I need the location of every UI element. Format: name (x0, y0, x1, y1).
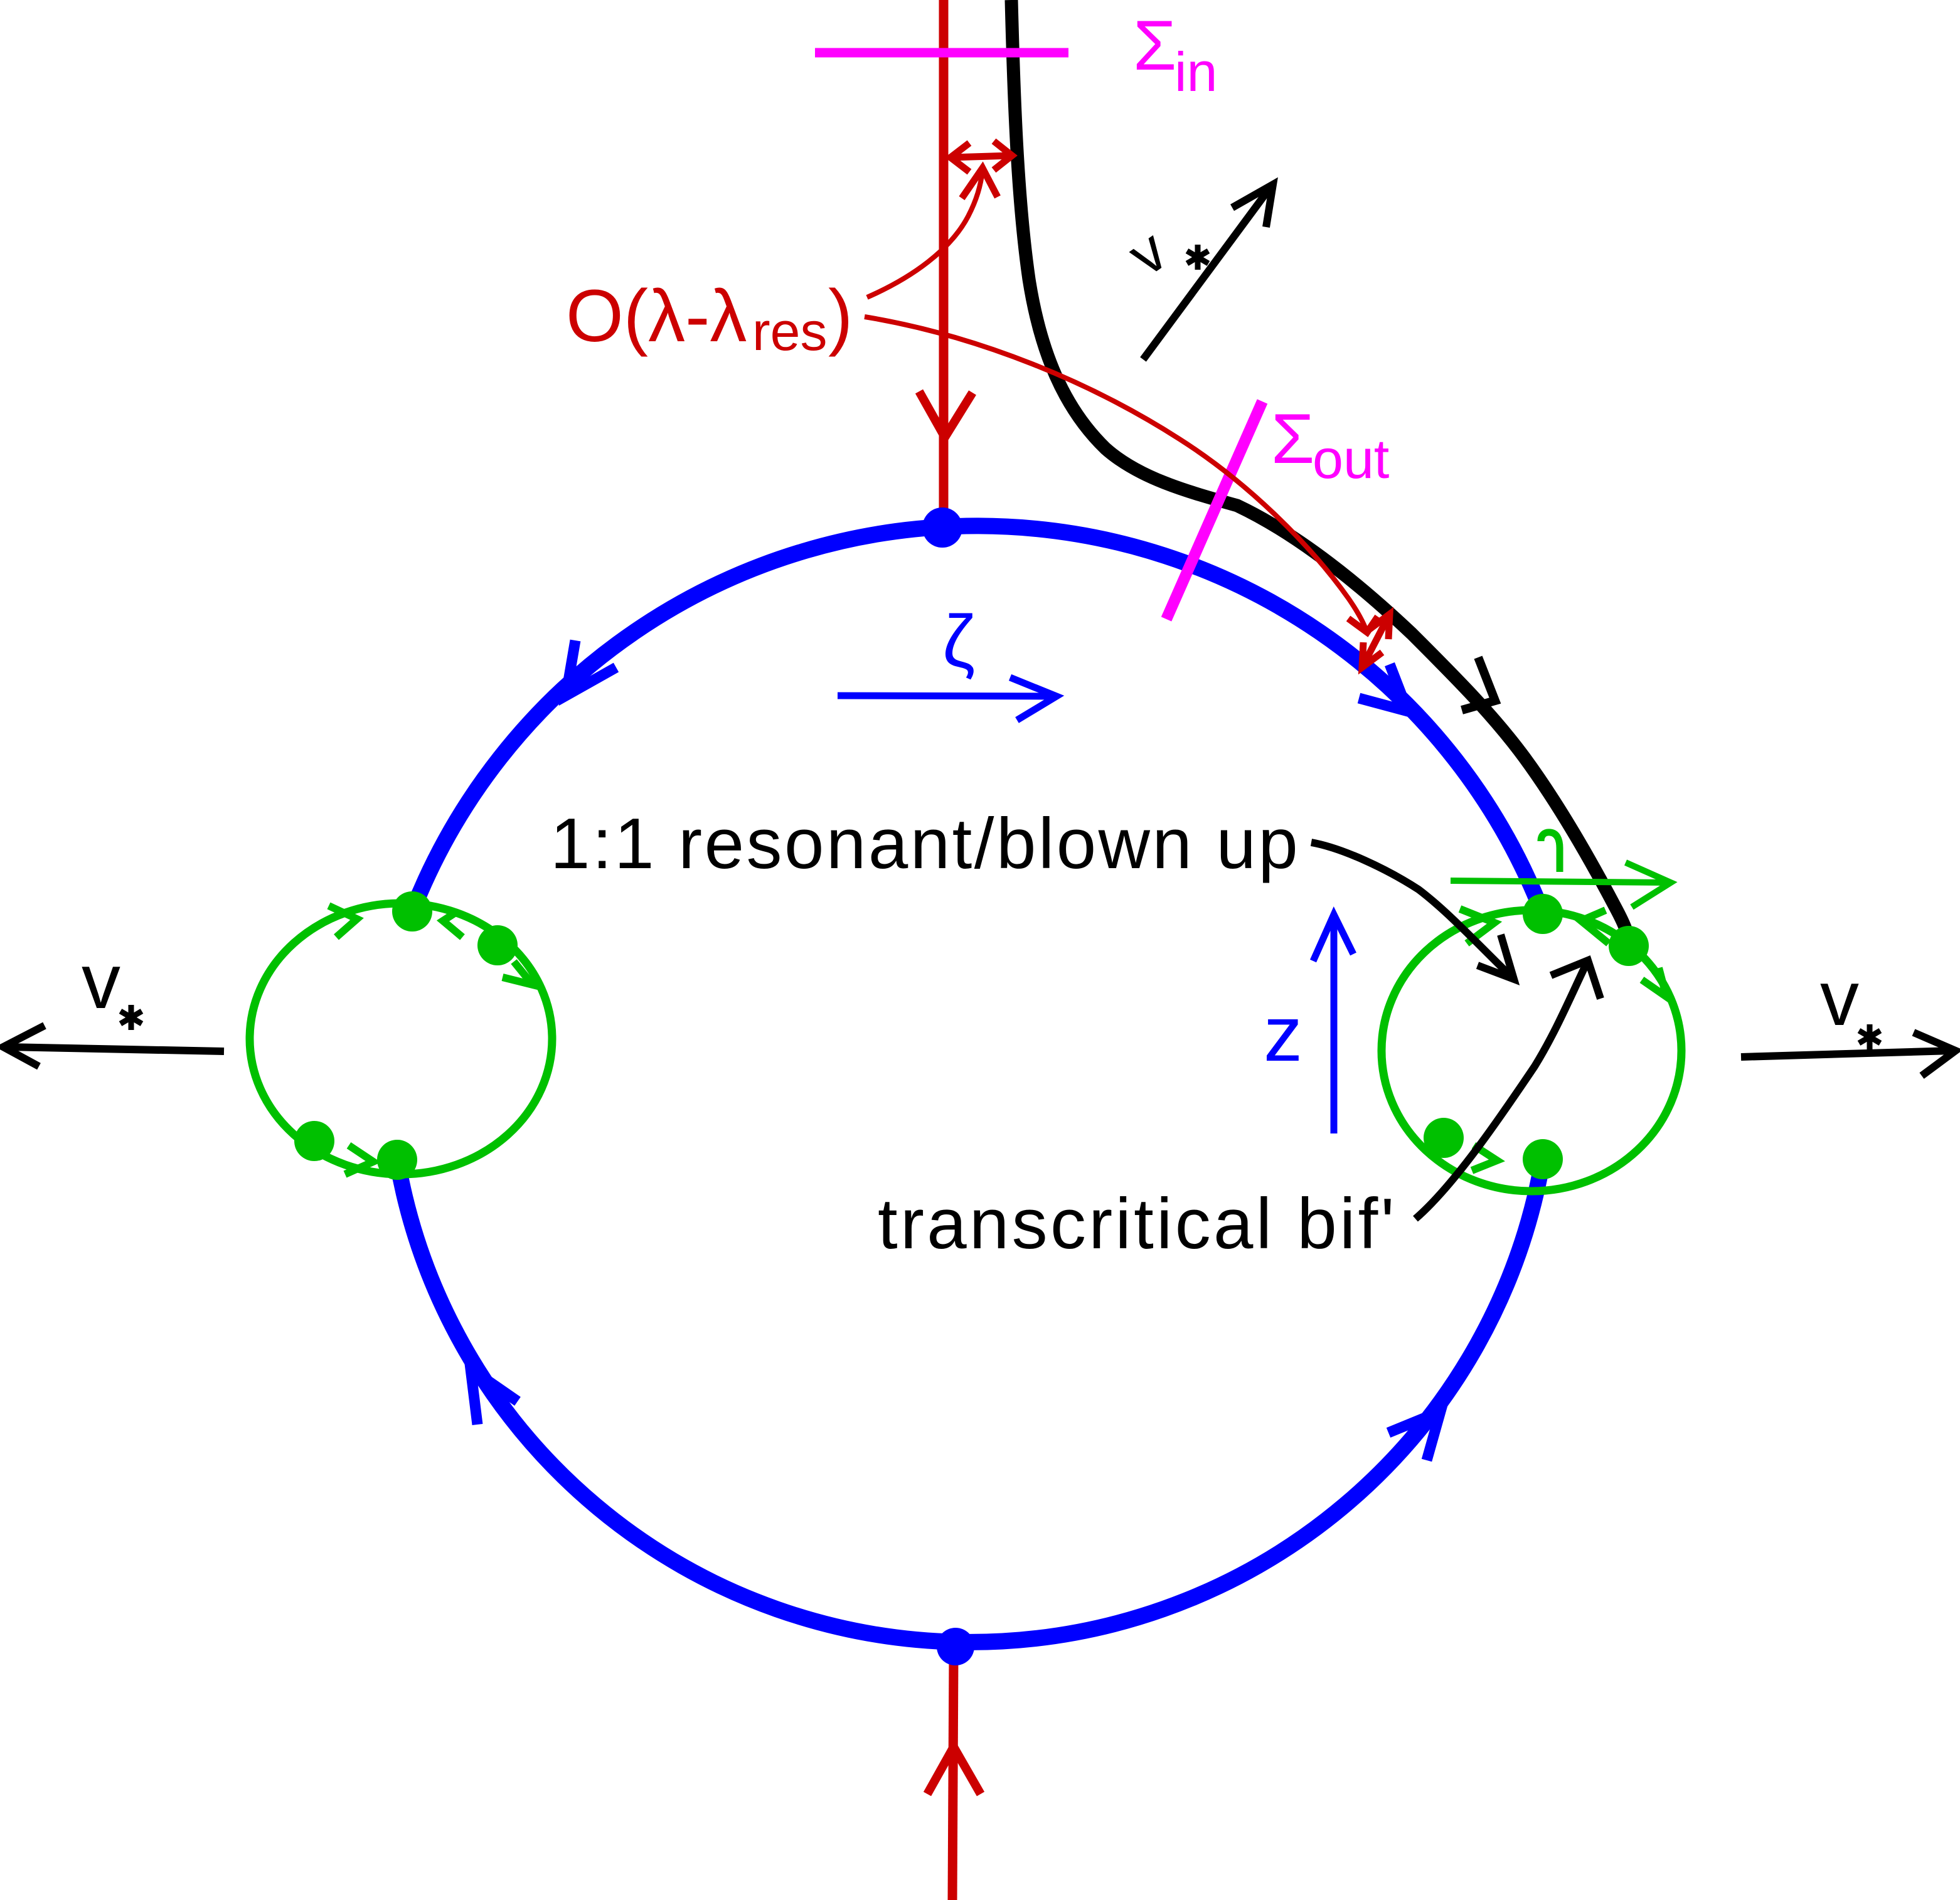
red leader curve to lower gap (865, 317, 1367, 632)
svg-text:z: z (1264, 991, 1302, 1078)
blue node bottom (937, 1628, 974, 1665)
green equilibrium dot left-bottom (377, 1140, 417, 1180)
blue flow arrow upper-right (1359, 664, 1408, 711)
red label O(lambda-lambda_res) (566, 275, 853, 362)
red leader arrowhead lower (1348, 617, 1378, 632)
green equilibrium dot right-bottom (1523, 1139, 1563, 1179)
blue circle top arc (412, 526, 1543, 914)
red arrow top pointing down (919, 391, 972, 437)
blue flow arrow lower-left (471, 1369, 518, 1425)
red leader curve to top gap (867, 171, 983, 297)
green gamma arrow (1451, 881, 1669, 883)
magenta label Sigma_in (1133, 6, 1218, 103)
red gap double arrow top (951, 141, 1012, 172)
red invariant line top (939, 0, 949, 521)
asterisk left (120, 1005, 142, 1030)
black arrow v_* upper right (1143, 186, 1271, 359)
svg-text:res: res (752, 302, 827, 362)
asterisk upper right (1187, 245, 1208, 270)
blue zeta arrow (838, 696, 1051, 696)
svg-text:O(λ-λ: O(λ-λ (566, 275, 747, 358)
green equilibrium dot left-top (392, 891, 432, 931)
green equilibrium dot left-lower-left (294, 1121, 334, 1161)
green gamma label (1541, 832, 1560, 872)
svg-text:): ) (828, 275, 853, 358)
svg-text:ζ: ζ (942, 600, 975, 683)
svg-text:in: in (1174, 41, 1218, 103)
magenta label Sigma_out (1271, 400, 1389, 490)
black arrow v_* right (1741, 1051, 1952, 1057)
svg-text:1:1 resonant/blown up: 1:1 resonant/blown up (550, 804, 1300, 884)
svg-text:Σ: Σ (1271, 400, 1314, 478)
svg-text:v: v (82, 938, 120, 1025)
green flow arrow left ellipse bottom (345, 1145, 373, 1174)
black trajectory curve (1011, 0, 1629, 946)
blue circle bottom arc (397, 1159, 1543, 1642)
green blown-up circle left (250, 903, 552, 1174)
green equilibrium dot left-upper-right (477, 925, 518, 965)
black annotation arrow to transcritical point (1415, 960, 1588, 1219)
green flow arrow right ellipse top-right (1581, 910, 1609, 943)
green flow arrow right ellipse right (1642, 968, 1666, 997)
blue node top (922, 507, 962, 548)
asterisk right (1859, 1024, 1880, 1049)
green flow arrow right ellipse top-left (1460, 909, 1494, 943)
red arrow bottom pointing up (927, 1747, 981, 1794)
magenta section Sigma_out line (1166, 401, 1262, 619)
blue flow arrow upper-left (566, 640, 616, 696)
red gap double arrow lower (1362, 614, 1390, 667)
black annotation arrow to blown-up circle (1311, 842, 1514, 979)
black arrow v_* left (6, 1047, 224, 1051)
svg-text:v: v (1820, 955, 1859, 1042)
blue z axis arrow (1331, 919, 1338, 1133)
black trajectory arrowhead (1462, 657, 1495, 710)
black label v_* upper right (rotated) (1116, 217, 1179, 289)
svg-text:transcritical bif': transcritical bif' (878, 1184, 1397, 1264)
red leader arrowhead top (962, 168, 998, 198)
svg-text:Σ: Σ (1133, 6, 1176, 85)
green flow arrow left ellipse top-left (329, 906, 357, 937)
green flow arrow right ellipse bottom (1472, 1145, 1497, 1170)
green equilibrium dot right-lower-left (1424, 1118, 1464, 1158)
magenta section Sigma_in line (815, 48, 1068, 58)
green equilibrium dot right-upper-right (1609, 926, 1649, 966)
green flow arrow left ellipse right (503, 962, 533, 985)
green blown-up circle right (1382, 910, 1681, 1191)
green equilibrium dot right-top (1523, 894, 1563, 934)
blue flow arrow lower-right (1388, 1411, 1441, 1460)
red invariant line bottom (952, 1656, 954, 1900)
svg-text:out: out (1313, 428, 1389, 490)
green flow arrow left ellipse top-right (443, 911, 462, 937)
